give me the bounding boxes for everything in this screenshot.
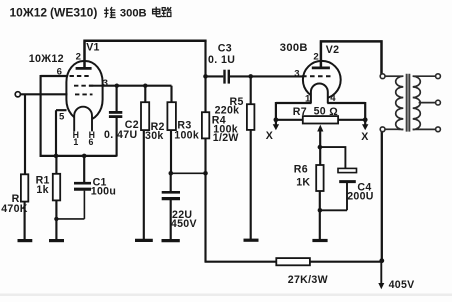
wire: C3 left lead [206,75,224,77]
labels left [1,42,243,230]
labels right [266,42,415,291]
node: wiper/C4 [318,145,323,150]
wire: R4 bottom to B+ node [204,138,206,262]
faint scan band [0,294,452,297]
wire: wiper stem [319,131,321,165]
svg-text:6: 6 [89,137,94,147]
wire: C2 top lead [116,86,118,112]
svg-text:3: 3 [294,68,300,79]
node: R1/C1 bottom [54,217,58,221]
primary winding [396,76,404,129]
svg-text:300B: 300B [120,8,147,20]
svg-text:0. 47U: 0. 47U [104,129,138,141]
wire: R2 top lead [144,86,146,103]
ground R1 [49,239,64,242]
svg-text:2: 2 [76,52,82,63]
svg-text:1K: 1K [296,177,310,189]
svg-text:(WE310): (WE310) [50,6,97,20]
resistor R 470K [21,174,28,201]
wire: R2 bottom to ground [143,130,145,240]
input terminal [15,92,20,97]
svg-text:27K/3W: 27K/3W [288,274,328,286]
title: 10Ж12(WE310) 推 300B 电路 [10,6,172,20]
node: C2 tap [115,84,119,88]
tube V2 grid dashed [302,75,331,77]
wire: C3 right lead to 300B grid [230,75,303,77]
wire: V1 pin3 screen rail [102,85,172,87]
wire: input terminal to grid [21,93,68,95]
svg-text:V2: V2 [326,44,340,56]
wire: B+ bottom rail to 27K [205,261,277,263]
potentiometer R7 body [303,116,338,123]
resistor R4 [202,112,209,138]
node: R2 tap [143,84,147,88]
svg-text:Ω: Ω [329,106,338,118]
svg-text:470K: 470K [1,203,28,215]
405V arrow [378,261,384,289]
svg-text:10Ж12: 10Ж12 [10,6,48,20]
svg-text:450V: 450V [171,218,197,230]
node: C3 left [203,74,208,79]
svg-text:5: 5 [59,112,65,123]
svg-text:405V: 405V [389,279,415,291]
R7 right end arrow to X [362,120,368,130]
svg-text:2: 2 [313,52,319,63]
wire: transformer bottom to 405V node [381,132,383,262]
wire: V1 pin6 to cathode bus [41,75,68,157]
R7 wiper arrow [317,125,323,132]
hanzi DIAN [153,7,162,17]
wire: 22U bottom to ground [170,200,172,241]
node: R3/22U [169,171,174,176]
wire: C3 node column [204,41,206,113]
primary lead bottom [385,128,399,130]
wire: R3 top lead [170,86,172,103]
resistor R1 [53,174,60,201]
resistor R2 [141,102,149,130]
node: R7 left [274,117,279,122]
wire: C4 branch top [320,146,346,168]
svg-text:200U: 200U [347,191,374,203]
wire: 22U top lead [170,173,172,191]
svg-text:X: X [361,131,368,143]
tube V2 envelope [303,61,341,99]
svg-text:R6: R6 [294,164,308,176]
wire: C1 top lead [83,156,85,182]
ground R5 [244,239,259,242]
wire: R470K bottom to ground [24,202,26,241]
R7 left end arrow to X [273,120,279,130]
capacitor C3 [225,70,229,84]
svg-text:R7: R7 [293,106,307,118]
wire: R6 bottom to ground [319,191,321,240]
tube V1 grid g2 (pin3) dashed [74,85,94,87]
wire: V2 pin4 [327,102,365,121]
tube V1 plate bar [76,67,92,70]
resistor R5 [247,104,255,130]
wire: R3 bottom to node [170,130,172,174]
secondary winding [413,76,421,129]
tube V2 filament dome [311,83,328,103]
tube V1 control grid dashed [75,93,93,95]
node: C3 right [248,74,253,79]
secondary taps [413,75,436,77]
svg-text:1k: 1k [36,184,48,196]
svg-text:V1: V1 [86,42,100,54]
wire: C4 bottom to R6 [320,183,347,211]
output transformer [385,74,436,132]
wire: R1 bottom to ground [55,200,57,240]
node: pin5/R1 [54,154,59,159]
wire: C2 bottom lead [116,117,118,157]
core [406,74,409,132]
svg-text:100k: 100k [174,130,199,142]
wire: R1 top lead [55,156,57,174]
resistor R6 [316,165,323,191]
capacitor C1 [74,183,91,189]
wire: V2 plate to transformer [320,40,383,74]
hanzi TUI [104,7,116,18]
wire: cathode bus [40,155,117,157]
capacitor 22U [162,192,180,198]
node: R7 right [363,117,368,122]
svg-text:6: 6 [57,67,63,78]
svg-text:1: 1 [73,137,78,147]
svg-text:10Ж12: 10Ж12 [29,53,64,65]
svg-text:C3: C3 [218,43,232,55]
ground R470K [18,239,33,242]
svg-text:100u: 100u [91,186,116,198]
svg-text:50: 50 [314,106,326,118]
wire: V1 plate top rail to C3 node corner [83,41,206,69]
wire: node link R3/R4 [171,172,206,174]
wire: V2 pin1 [276,102,312,121]
tube V1 grid g3 (pin6) dashed [70,75,90,77]
tube V1 heater dome [74,107,92,132]
svg-text:4: 4 [330,93,336,104]
primary lead top [385,75,399,77]
wire: V1 pin5 to cathode bus [56,110,67,156]
svg-text:30k: 30k [145,130,164,142]
wire: g2 exit [89,85,102,87]
hanzi LU [162,7,172,17]
svg-text:1/2W: 1/2W [213,132,239,144]
svg-text:300B: 300B [280,42,308,54]
ground 22U [162,239,180,242]
node: C1 [82,154,87,159]
capacitor C2 [109,112,122,116]
tube V1 envelope [66,61,102,121]
tube V2 plate bar [312,67,330,70]
node: R4 bottom [203,171,208,176]
svg-text:1: 1 [305,94,311,105]
wire: R7 track [276,119,365,121]
node: 405V junction [379,258,384,263]
ground R6 [312,239,327,242]
resistor 27K/3W [276,258,310,265]
transformer terminals [380,74,385,79]
wire: R5 column [250,76,252,240]
resistor R3 [167,102,176,130]
wire: input node down to R 470K [24,94,26,174]
svg-text:3: 3 [103,78,109,89]
wire: C1 bottom lead to R1 [56,191,84,219]
capacitor C4 [338,168,357,172]
node: R6/C4 bottom [318,208,323,213]
wire: 27K to 405V node [310,261,383,263]
svg-text:0. 1U: 0. 1U [208,54,235,66]
svg-text:X: X [266,130,273,142]
ground R2 [135,239,153,242]
